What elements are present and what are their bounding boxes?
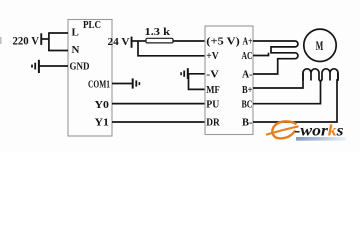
svg-text:B+: B+ <box>242 84 253 96</box>
svg-text:-works: -works <box>295 122 344 139</box>
wire B+ <box>253 73 303 88</box>
svg-text:COM1: COM1 <box>88 78 110 90</box>
chassis ground -V <box>181 68 188 79</box>
ground symbol (mains earth) <box>32 60 39 73</box>
phase B winding coil <box>303 69 319 81</box>
svg-text:N: N <box>72 44 80 56</box>
connector bar 220V <box>40 33 42 45</box>
wire ground drop to MF <box>189 74 206 90</box>
svg-text:+V: +V <box>206 50 219 62</box>
connector bar 24V <box>131 37 133 48</box>
wire Y1 to DR <box>112 121 205 123</box>
driver box <box>205 26 253 135</box>
svg-text:24 V: 24 V <box>108 36 130 48</box>
scan artifact left edge <box>0 37 2 44</box>
svg-text:M: M <box>316 38 324 53</box>
svg-text:A-: A- <box>242 69 253 81</box>
motor M <box>304 29 336 61</box>
wire to N <box>48 50 68 52</box>
PLC box <box>68 20 112 137</box>
wire to L <box>48 32 68 34</box>
wire A+ and phase A winding serpentine <box>253 41 298 74</box>
svg-text:PU: PU <box>206 98 219 110</box>
wire BC center tap <box>253 80 321 104</box>
wire COM1 <box>112 83 132 85</box>
e-works logo e swoosh <box>266 121 299 138</box>
svg-text:L: L <box>72 26 79 38</box>
wire GND <box>40 65 69 67</box>
svg-text:-V: -V <box>206 69 219 81</box>
wire -V to ground <box>188 73 205 75</box>
svg-text:(+5 V): (+5 V) <box>206 36 240 48</box>
wire 24V branch to +V <box>138 41 205 56</box>
svg-text:Y1: Y1 <box>95 117 110 129</box>
svg-text:A+: A+ <box>243 36 253 48</box>
wire 24V to resistor <box>133 40 147 42</box>
svg-text:MF: MF <box>206 84 220 96</box>
wire B- <box>253 73 338 122</box>
svg-text:1.3 k: 1.3 k <box>145 26 171 38</box>
wire resistor to +5V <box>173 40 205 42</box>
svg-text:BC: BC <box>242 98 253 110</box>
resistor R 1.3k <box>146 38 173 43</box>
wire AC center tap <box>253 53 269 56</box>
wire bracket vertical <box>48 33 50 51</box>
svg-text:AC: AC <box>242 50 253 62</box>
svg-text:GND: GND <box>70 60 90 72</box>
svg-text:DR: DR <box>206 117 220 129</box>
svg-text:PLC: PLC <box>83 19 101 31</box>
svg-text:Y0: Y0 <box>95 99 110 111</box>
wire stub 220V <box>42 38 49 40</box>
wire Y0 to PU <box>112 103 205 105</box>
svg-text:220 V: 220 V <box>13 36 40 48</box>
coil center baseline <box>319 80 322 82</box>
chassis ground COM1 <box>133 78 140 88</box>
svg-text:B-: B- <box>242 117 253 129</box>
